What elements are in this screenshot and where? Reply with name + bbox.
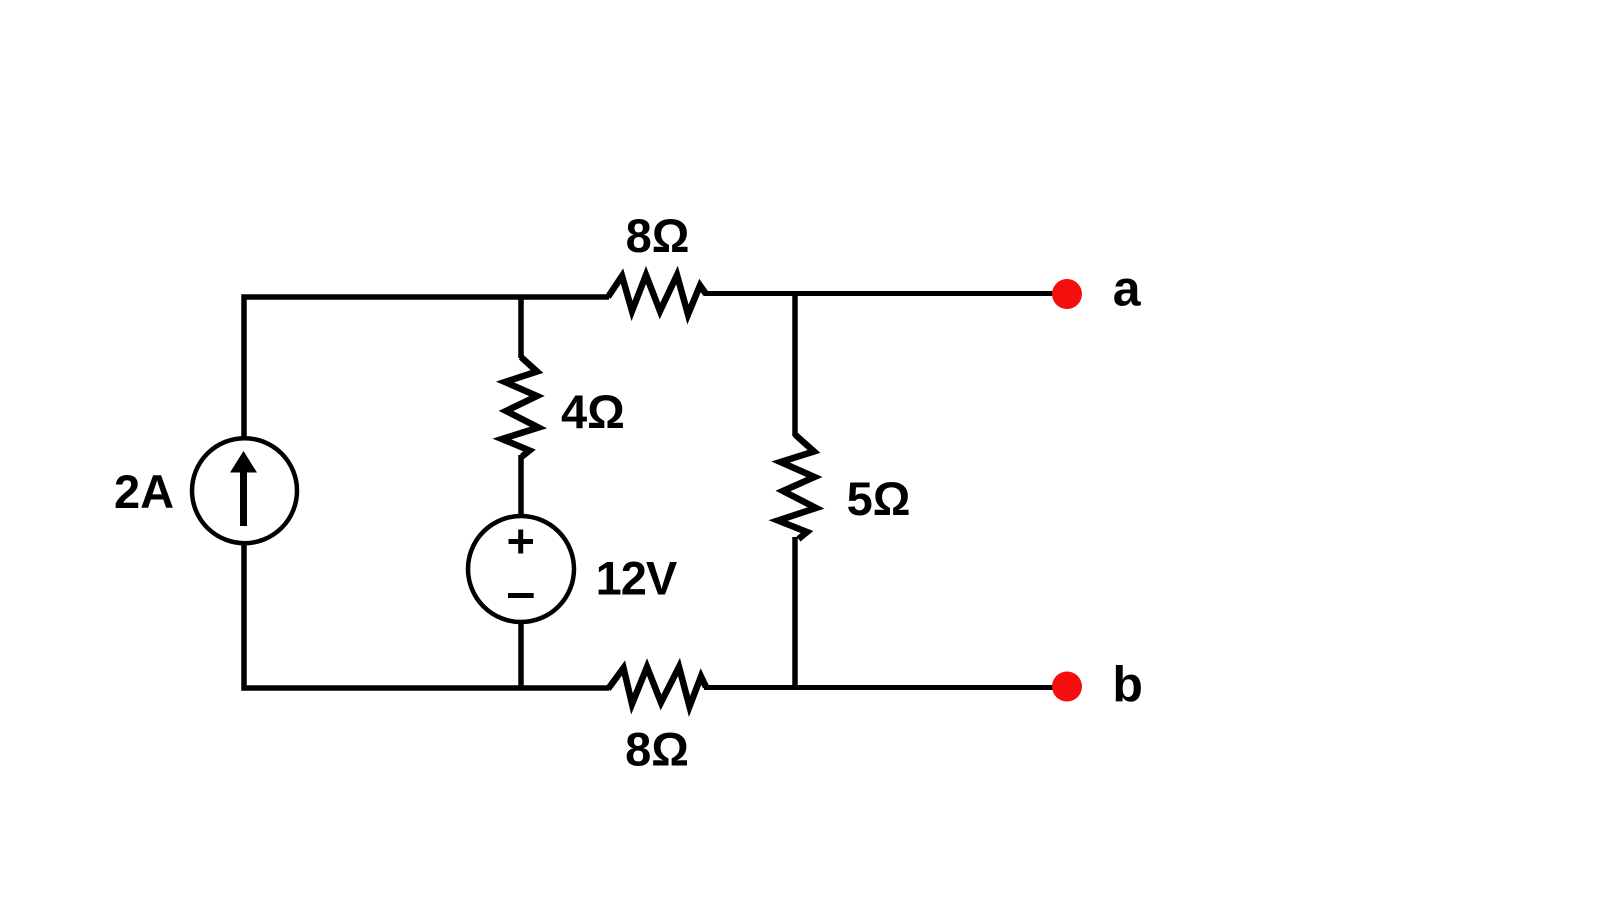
resistor R3 value label 5Ω xyxy=(847,472,911,525)
svg-text:8Ω: 8Ω xyxy=(625,723,689,776)
svg-text:4Ω: 4Ω xyxy=(561,385,625,438)
wire middle branch upper (node to R2) xyxy=(518,295,524,358)
wire top-right from R1 to terminal a xyxy=(704,291,1066,296)
terminal a red dot xyxy=(1052,279,1082,309)
resistor R2 4ohm vertical middle xyxy=(502,357,539,457)
resistor R1 value label 8Ω xyxy=(626,209,690,262)
current source I1 circle xyxy=(192,438,297,543)
svg-text:8Ω: 8Ω xyxy=(626,209,690,262)
svg-text:a: a xyxy=(1113,261,1142,317)
terminal b red dot xyxy=(1052,672,1082,702)
voltage source V1 minus sign xyxy=(508,593,534,598)
svg-text:b: b xyxy=(1112,657,1143,713)
svg-text:12V: 12V xyxy=(596,552,678,605)
resistor R1 8ohm top xyxy=(608,275,706,315)
current source I1 arrow xyxy=(230,451,257,526)
wire right branch upper (node to R3) xyxy=(792,294,798,437)
terminal b label xyxy=(1112,657,1143,713)
wire middle branch V1 to bottom wire xyxy=(518,622,524,688)
current source value label 2A xyxy=(114,465,174,518)
wire right branch lower (R3 to bottom wire) xyxy=(792,537,798,688)
voltage source V1 circle xyxy=(468,516,574,622)
wire middle branch R2 to V1 xyxy=(518,455,524,516)
voltage source V1 plus sign xyxy=(509,530,534,554)
wire bottom-right from R4 to terminal b xyxy=(704,685,1066,690)
wire left vertical lower and bottom-left xyxy=(244,545,609,688)
wire top-left and left vertical upper xyxy=(244,297,609,437)
voltage source value label 12V xyxy=(596,552,678,605)
resistor R3 5ohm vertical right xyxy=(778,435,816,540)
resistor R4 value label 8Ω xyxy=(625,723,689,776)
svg-text:5Ω: 5Ω xyxy=(847,472,911,525)
svg-text:2A: 2A xyxy=(114,465,174,518)
terminal a label xyxy=(1113,261,1142,317)
resistor R2 value label 4Ω xyxy=(561,385,625,438)
resistor R4 8ohm bottom xyxy=(608,667,706,707)
